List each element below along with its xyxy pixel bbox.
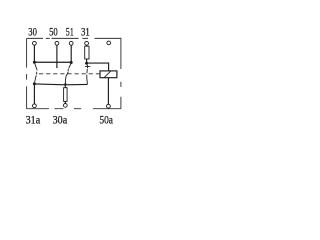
- key actuation cross horizontal: [85, 65, 90, 67]
- contact lever C upper dash: [86, 69, 88, 73]
- terminal 30a: [63, 104, 67, 108]
- wire lower line to resistor 30a: [64, 84, 66, 87]
- junction node 31a: [33, 82, 36, 85]
- wire from terminal 30 down to bus: [33, 45, 35, 61]
- contact lever C lower part: [86, 75, 89, 85]
- svg-text:30: 30: [28, 25, 37, 39]
- resistor in 30a branch: [64, 88, 68, 102]
- svg-text:50a: 50a: [99, 113, 113, 127]
- wire from terminal 31 to resistor: [86, 45, 88, 46]
- contact lever B (51 to 30a) upper part: [69, 64, 71, 69]
- resistor in 31 branch: [85, 46, 89, 59]
- junction node 51/bus: [70, 61, 73, 64]
- svg-text:50: 50: [49, 25, 58, 39]
- mechanical coupling dashed line: [39, 73, 100, 75]
- terminal 30: [33, 41, 37, 45]
- spare terminal (unlabeled): [107, 41, 111, 45]
- junction node 30/bus: [33, 61, 36, 64]
- bus wire 30-51: [34, 61, 71, 63]
- housing outline bottom edge: [27, 108, 121, 110]
- contact lever A crossing tick: [36, 72, 38, 75]
- terminal 50: [55, 41, 59, 45]
- svg-text:30a: 30a: [53, 113, 68, 127]
- ignition lock actuator box: [100, 71, 117, 78]
- wire from terminal 50 down past bus (fixed contact): [56, 45, 58, 68]
- housing outline right edge: [120, 38, 122, 109]
- contact lever B crossing tick: [67, 69, 69, 71]
- svg-text:31: 31: [81, 25, 90, 39]
- wire from terminal 51 down to bus: [70, 45, 72, 61]
- svg-text:31a: 31a: [26, 113, 41, 127]
- wire node to terminal 31a: [33, 84, 35, 104]
- terminal 51: [69, 41, 73, 45]
- wire actuator to terminal 50a: [107, 78, 109, 105]
- key actuation cross vertical: [87, 65, 89, 69]
- housing outline left edge: [26, 38, 28, 108]
- terminal 50a: [107, 104, 111, 108]
- housing outline top edge (dashed box): [27, 37, 122, 39]
- lower wire 31a node to lever C: [34, 83, 87, 86]
- junction node 30a: [64, 83, 66, 85]
- terminal 31a: [33, 104, 37, 108]
- svg-text:51: 51: [66, 25, 74, 39]
- contact lever A (30 to 31a) upper part: [35, 64, 37, 71]
- wire resistor to node 31: [86, 59, 88, 63]
- ignition lock actuator diagonal: [104, 71, 111, 78]
- terminal 31: [85, 41, 89, 45]
- wire resistor to terminal 30a: [64, 101, 66, 103]
- wire node 31 to lock actuator: [87, 63, 109, 71]
- contact lever B lower part: [65, 72, 68, 84]
- junction node 31: [85, 62, 88, 65]
- contact lever A lower part: [35, 75, 37, 82]
